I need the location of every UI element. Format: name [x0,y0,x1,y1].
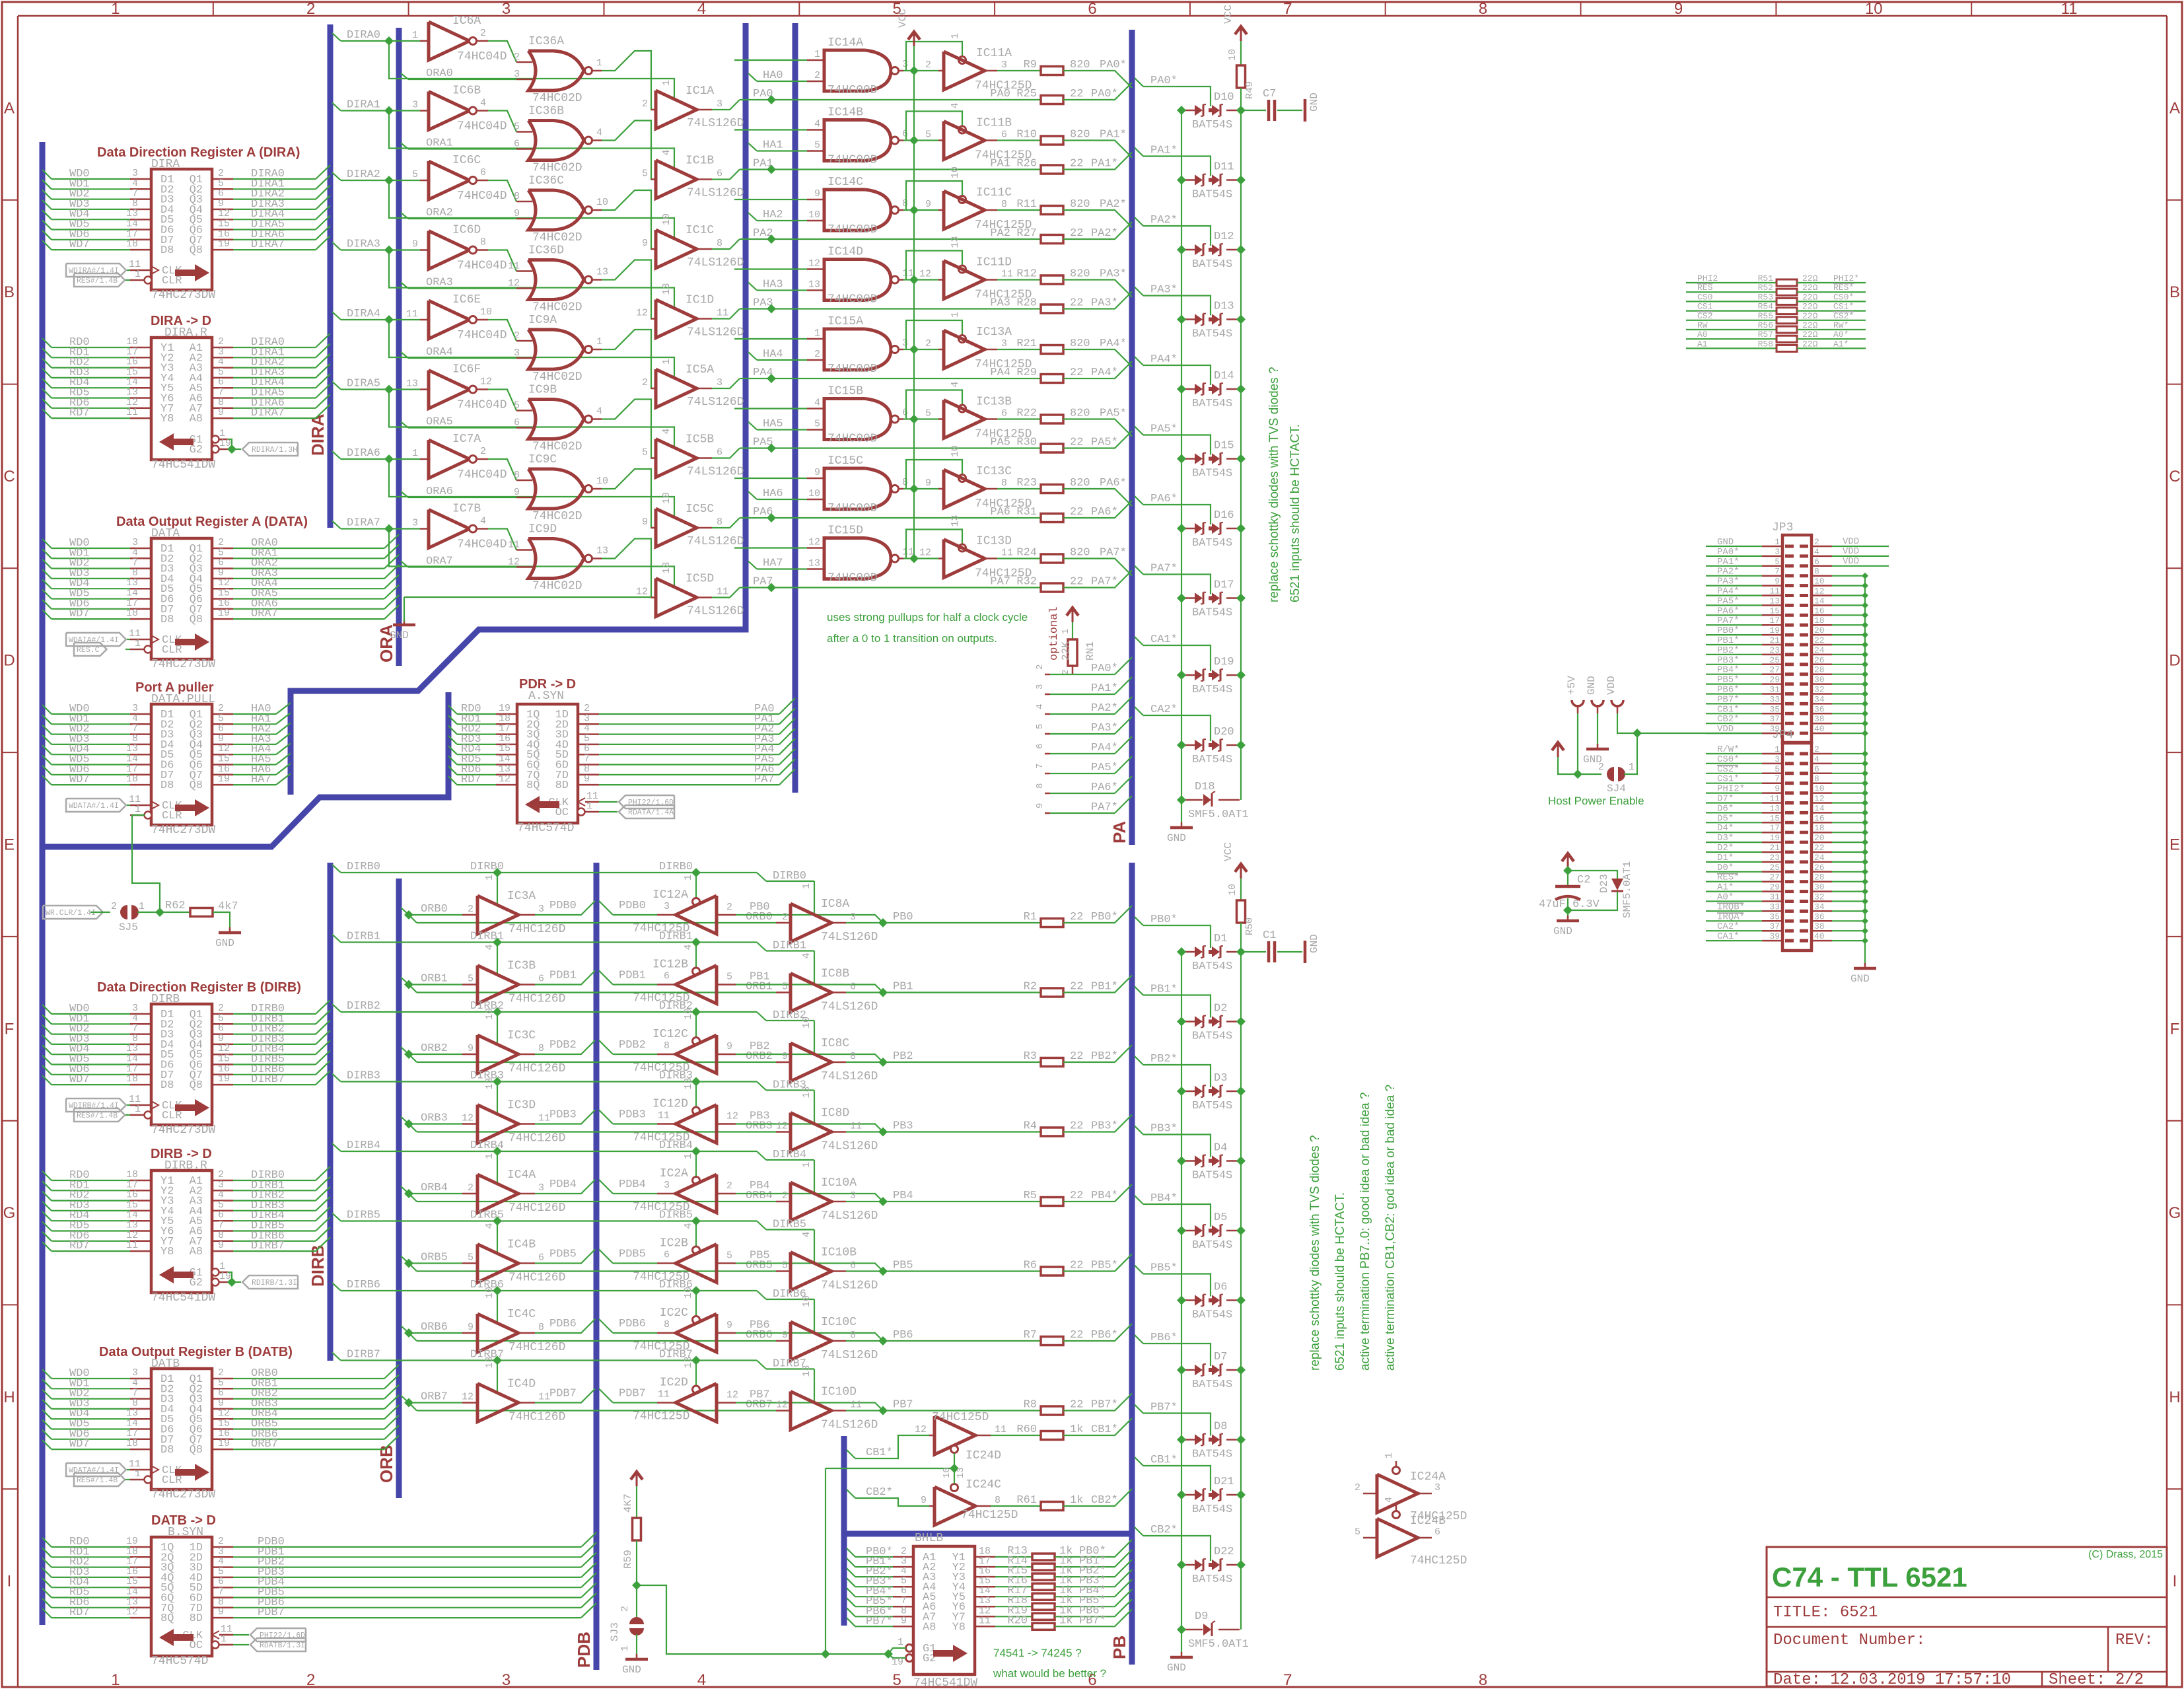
wire IC7B out to NOR [488,529,516,550]
solder jumper SJ5 [120,905,127,919]
svg-text:22: 22 [1070,1120,1083,1133]
flag WDIRA#/1.4I [66,264,126,277]
wire DIRA.R A1 out [212,357,233,359]
svg-text:74HC02D: 74HC02D [532,371,582,384]
svg-text:BAT54S: BAT54S [1192,1503,1232,1516]
wire DATA.PULL Q3 out HA3 [212,744,233,746]
svg-text:6: 6 [480,167,486,178]
svg-text:820: 820 [1070,198,1090,211]
svg-text:22: 22 [1814,635,1825,645]
wire DIRA7 from bus [332,521,341,529]
wire PDB3 to IC12D [599,1110,613,1124]
enable stubs DIRB5 [497,1221,498,1254]
svg-text:IC14D: IC14D [828,246,863,259]
ground JP rail [1864,961,1866,966]
svg-text:PB7: PB7 [893,1399,913,1412]
title block [1767,1547,2167,1686]
svg-text:4: 4 [801,1231,812,1237]
wire DIRA.R A6 out [212,408,233,410]
svg-text:19: 19 [218,1073,230,1085]
svg-text:DIRA6: DIRA6 [347,447,380,460]
diode D15 BAT54S [1181,458,1195,460]
svg-text:R49: R49 [1244,81,1255,99]
svg-text:CLR: CLR [162,810,182,822]
wire WD1 to DATB [42,1379,52,1388]
svg-text:DIRA1: DIRA1 [347,99,380,112]
svg-text:22: 22 [1070,1190,1083,1202]
svg-text:DIRB0: DIRB0 [347,861,380,873]
wire DIRB4 from bus [332,1143,341,1151]
wire DIRB1 from bus [332,935,341,943]
svg-text:9: 9 [726,1320,732,1331]
wire WD0 to DATB [42,1369,52,1379]
svg-text:1: 1 [619,1645,631,1651]
svg-text:IC15B: IC15B [828,385,863,398]
svg-text:4: 4 [480,516,486,527]
svg-text:PB1*: PB1* [1091,981,1118,993]
svg-text:RDIRB/1.3I: RDIRB/1.3I [252,1279,297,1287]
flag PHI22/1.6D [619,795,674,809]
svg-text:8: 8 [850,1330,856,1341]
svg-text:BAT54S: BAT54S [1192,607,1232,620]
svg-text:IC12D: IC12D [652,1098,688,1111]
svg-text:R8: R8 [1024,1399,1037,1412]
capacitor C1 [1241,951,1266,952]
buffer IC12A 74HC125D mirrored [657,914,676,916]
svg-text:ORB: ORB [376,1445,396,1483]
wire DIRB.R A6 out [212,1240,233,1242]
wire IC36B out to IC1B [602,121,656,180]
diode D22 BAT54S [1181,1564,1195,1566]
svg-text:74HC273DW: 74HC273DW [151,658,215,671]
svg-text:12: 12 [919,269,931,280]
svg-text:IC9A: IC9A [528,314,557,327]
buffer IC2A 74HC125D mirrored [657,1193,676,1195]
diode D16 BAT54S [1181,528,1195,530]
wire DATA Q7 out ORA7 [212,618,233,620]
svg-text:BAT54S: BAT54S [1192,537,1232,550]
svg-text:CS0*: CS0* [1833,292,1854,302]
svg-text:74HC273DW: 74HC273DW [151,824,215,837]
wire WD5 to DIRB [42,1056,52,1065]
svg-text:E: E [2169,836,2180,854]
svg-text:IC6E: IC6E [452,293,481,306]
svg-text:IC5C: IC5C [686,503,714,516]
svg-text:13: 13 [406,378,418,390]
JP4 pin 39 [1785,939,1794,943]
svg-text:9: 9 [921,1495,927,1506]
JP3 pin 27 [1785,672,1794,676]
wire RD6 to DIRB.R [42,1232,52,1241]
svg-text:31: 31 [1769,892,1780,902]
wire PDB3 from IC3D [535,1110,595,1124]
wire HA1 from bus [748,143,757,151]
svg-text:37: 37 [1769,714,1780,724]
wire DIRA.R A4 out [212,387,233,389]
svg-text:CS0: CS0 [1697,292,1712,302]
svg-text:replace schottky diodes with T: replace schottky diodes with TVS diodes … [1308,1135,1322,1371]
svg-text:9: 9 [514,208,520,219]
wire WD6 to DATA.PULL [42,766,52,775]
wire DIRB.R A0 out [212,1180,233,1182]
svg-text:74HC00D: 74HC00D [828,363,878,376]
svg-text:SJ4: SJ4 [1607,783,1626,795]
svg-text:8: 8 [538,1043,544,1054]
wire WD1 to DIRB [42,1015,52,1024]
svg-text:Y8: Y8 [952,1621,966,1634]
svg-text:GND: GND [1553,925,1572,937]
svg-text:8: 8 [1814,774,1819,784]
wire PA6* from bus to diode [1135,496,1143,505]
svg-text:1: 1 [1775,744,1780,754]
svg-text:Y8: Y8 [160,413,174,425]
flag RDIRA/1.3H [242,443,298,456]
svg-text:D8: D8 [1214,1421,1227,1433]
svg-text:13: 13 [661,283,672,295]
wire ORB7 from bus [401,1396,409,1403]
wire PA4 from IC5A [712,378,740,388]
svg-text:RDATA/1.4A: RDATA/1.4A [628,809,674,817]
svg-text:PA7*: PA7* [1091,801,1118,814]
svg-text:35: 35 [1769,704,1780,714]
svg-text:74HC02D: 74HC02D [532,510,582,523]
wire WD5 to DATB [42,1420,52,1429]
wire WD5 to DATA.PULL [42,756,52,765]
svg-text:R52: R52 [1758,283,1773,293]
svg-text:D: D [2169,652,2180,670]
svg-text:BAT54S: BAT54S [1192,328,1232,341]
svg-text:PB6*: PB6* [1091,1329,1118,1342]
supply VDD cup [1611,700,1623,706]
svg-text:18: 18 [1814,616,1825,626]
svg-text:IC13D: IC13D [976,535,1012,548]
svg-text:2: 2 [468,904,474,915]
svg-text:BAT54S: BAT54S [1192,1449,1232,1461]
wire WD2 to DIRB [42,1025,52,1034]
svg-text:R4: R4 [1024,1120,1037,1133]
buffer IC8D 74LS126D [791,1113,831,1151]
svg-text:1: 1 [135,804,141,815]
svg-text:G2: G2 [190,444,203,456]
wire DIRB Q4 out [212,1054,233,1056]
wire DATA Q0 out ORA0 [212,548,233,550]
svg-text:7: 7 [1283,0,1292,18]
svg-text:11: 11 [717,308,728,319]
svg-text:74LS126D: 74LS126D [821,1140,878,1153]
svg-text:6: 6 [1001,408,1007,419]
svg-text:11: 11 [658,1110,670,1122]
wire WD2 to DATB [42,1390,52,1399]
wire DIRA Q6 out [212,239,233,241]
wire RD0 to B.SYN [42,1538,52,1547]
svg-text:4: 4 [484,1223,495,1229]
wire HA3 from bus [748,283,757,291]
svg-text:8: 8 [664,1319,670,1330]
svg-text:74HC273DW: 74HC273DW [151,1124,215,1137]
svg-text:PB0*: PB0* [1091,911,1118,923]
svg-text:SJ5: SJ5 [119,921,138,933]
svg-text:1: 1 [950,33,961,39]
svg-text:11: 11 [850,1400,862,1411]
buffer IC4B 74HC126D [477,1244,518,1283]
svg-text:8: 8 [902,198,908,209]
wire IC2D input tap [736,1403,883,1411]
gnd for IC5D input [393,624,415,627]
svg-text:D16: D16 [1214,509,1234,522]
svg-text:20: 20 [1814,626,1825,635]
svg-text:A0: A0 [1697,330,1708,340]
svg-text:WD7: WD7 [69,1438,90,1451]
svg-text:6: 6 [1434,1527,1440,1538]
svg-text:R3: R3 [1024,1050,1037,1063]
enable loop IC11A [906,42,962,71]
svg-text:VCC: VCC [1222,842,1234,861]
svg-text:D7: D7 [1214,1351,1227,1363]
svg-text:6521 inputs should be HCTACT.: 6521 inputs should be HCTACT. [1333,1192,1347,1371]
svg-text:3: 3 [538,1182,544,1194]
wire IC2B input tap [736,1264,883,1272]
resistor R59 4K7 [633,1518,641,1540]
svg-text:D20: D20 [1214,726,1234,738]
svg-text:Data Output Register B (DATB): Data Output Register B (DATB) [99,1345,293,1359]
wire PDB2 to IC12C [599,1040,613,1054]
svg-text:D9: D9 [1195,1610,1208,1623]
svg-text:21: 21 [1769,843,1780,853]
svg-text:HA7: HA7 [763,557,783,570]
wire WD4 to DIRB [42,1045,52,1054]
svg-text:C: C [3,468,15,485]
svg-text:IC3A: IC3A [507,890,536,903]
svg-text:PB2*: PB2* [1150,1053,1178,1065]
wire IC36A out to IC1A [602,51,656,110]
buffer IC3D 74HC126D [477,1105,518,1143]
diode D17 BAT54S [1181,597,1195,599]
wire RD1 to DIRB.R [42,1181,52,1190]
svg-text:PDB3: PDB3 [549,1109,577,1122]
svg-text:PA3*: PA3* [1091,722,1118,735]
wire ORA6 from bus [401,491,408,497]
svg-text:28: 28 [1814,873,1825,882]
svg-text:R62: R62 [165,900,186,912]
svg-text:74HC126D: 74HC126D [509,1132,565,1145]
wire ORA3 from bus [401,283,408,289]
svg-text:8: 8 [717,238,722,249]
svg-text:1: 1 [1775,537,1780,547]
wire DIRB Q7 out [212,1084,233,1086]
svg-text:A8: A8 [190,1246,203,1258]
svg-text:12: 12 [126,1606,138,1618]
wire DIRA0 to 126 enable [389,41,674,99]
svg-text:ORA4: ORA4 [426,346,453,359]
wire ORA0 from bus [401,73,408,79]
svg-text:5: 5 [468,1252,474,1264]
svg-text:I: I [7,1573,12,1591]
resistor R20 1k [975,1626,995,1628]
svg-text:3: 3 [1035,684,1045,690]
VCC arrow R59 [636,1474,638,1486]
svg-text:8D: 8D [190,1612,203,1625]
svg-text:PHI2*: PHI2* [1833,273,1859,283]
svg-text:RD7: RD7 [461,773,481,786]
svg-text:Sheet: 2/2: Sheet: 2/2 [2049,1671,2144,1689]
svg-text:RES#/1.4B: RES#/1.4B [77,1112,118,1120]
svg-text:CS2*: CS2* [1833,311,1854,321]
wire DIRA1 to 126 enable [389,111,674,169]
svg-text:35: 35 [1769,912,1780,921]
svg-text:8: 8 [1479,1671,1487,1689]
wire PA7* from bus to diode [1135,566,1143,575]
svg-text:IC3B: IC3B [507,960,536,973]
wire PDB5 to IC2B [599,1250,613,1264]
svg-text:IC12A: IC12A [652,888,688,902]
svg-text:74HC00D: 74HC00D [828,84,878,97]
buffer IC12C 74HC125D mirrored [657,1054,676,1056]
NAND gate IC14B 74HC00D [824,120,891,161]
svg-text:10: 10 [950,445,961,457]
svg-text:22: 22 [1070,1329,1083,1342]
wire DATA Q1 out ORA1 [212,557,233,559]
svg-text:74HC126D: 74HC126D [509,1062,565,1075]
diode D2 BAT54S [1181,1021,1195,1023]
svg-text:IC15A: IC15A [828,315,863,328]
wire IC15A out to IC13A [903,349,938,350]
wire DIRA5 to 126 enable [389,390,674,448]
buffer IC11B 74HC125D [944,122,985,160]
JP3 pin 31 [1785,692,1794,696]
svg-text:PA2*: PA2* [1091,702,1118,715]
svg-text:D3: D3 [1214,1072,1227,1085]
wire DIRA7 to 126 enable [389,529,674,587]
resistor R21 820 [997,349,1041,350]
ground for C7 [1304,99,1307,122]
svg-text:13: 13 [683,1077,694,1089]
svg-text:5: 5 [1355,1527,1360,1538]
wire RD2 to B.SYN [42,1558,52,1567]
svg-text:9: 9 [514,487,520,498]
svg-text:18: 18 [126,773,138,785]
wire DIRA3 to 126 enable [389,250,674,308]
svg-text:5: 5 [726,1250,732,1262]
resistor R54 22ohm [1686,310,1777,312]
svg-text:WD7: WD7 [69,773,90,786]
svg-text:IC10B: IC10B [821,1246,857,1260]
svg-text:10: 10 [683,1287,694,1299]
wire PA5 to NAND pin1 [734,408,807,409]
buffer IC12B 74HC125D mirrored [657,984,676,986]
svg-text:74HC125D: 74HC125D [975,567,1032,581]
JP4 pin 21 [1785,851,1794,854]
svg-text:1: 1 [596,336,602,347]
svg-text:PB7*: PB7* [866,1615,893,1628]
svg-text:14: 14 [1814,803,1825,813]
wire HA5 from bus [748,422,757,430]
svg-text:22: 22 [1070,88,1083,100]
svg-text:D15: D15 [1214,440,1234,452]
wire RD0 to A.SYN [448,705,457,714]
svg-text:3: 3 [1434,1482,1440,1493]
svg-text:A1*: A1* [1833,339,1849,349]
flag RES#/1.4B [74,1473,125,1486]
svg-text:PDB6: PDB6 [619,1318,646,1330]
wire PA4* from bus to diode [1135,357,1143,365]
svg-text:IC14C: IC14C [828,176,863,189]
svg-text:IC11A: IC11A [976,47,1012,60]
wire IC14A out to IC11A [903,70,938,71]
svg-text:R61: R61 [1016,1494,1037,1507]
svg-text:2: 2 [1035,665,1045,670]
svg-text:6: 6 [1001,129,1007,141]
svg-text:DIRA2: DIRA2 [347,168,380,181]
svg-text:74LS126D: 74LS126D [687,117,744,130]
resistor R61 1k [991,1505,1041,1507]
svg-text:Date: 12.03.2019 17:57:10: Date: 12.03.2019 17:57:10 [1773,1671,2011,1689]
svg-text:PDB0: PDB0 [549,900,577,912]
svg-text:40: 40 [1814,931,1825,941]
svg-text:820: 820 [1070,59,1090,71]
svg-text:74LS126D: 74LS126D [821,1419,878,1432]
inverter IC6A 74HC04D [429,22,470,60]
svg-text:9: 9 [642,238,648,249]
svg-text:R21: R21 [1016,338,1037,350]
wire PB7* from bus to diode [1135,1405,1143,1414]
wire PA0 to NAND pin1 [734,59,807,61]
svg-text:IC4A: IC4A [507,1168,536,1182]
svg-text:BAT54S: BAT54S [1192,258,1232,271]
wire WD0 to DATA.PULL [42,705,52,714]
resistor R22 820 [997,418,1041,419]
svg-text:2: 2 [306,1671,315,1689]
svg-text:R24: R24 [1016,547,1037,559]
svg-text:A.SYN: A.SYN [528,690,564,703]
svg-text:74LS126D: 74LS126D [687,326,744,340]
svg-text:GND: GND [215,937,234,949]
svg-text:CS1: CS1 [1697,302,1713,312]
svg-text:BAT54S: BAT54S [1192,1239,1232,1252]
svg-text:VDD: VDD [1843,556,1859,567]
bus PA mid [793,23,798,793]
svg-text:RES*: RES* [1833,283,1854,293]
svg-text:PA6*: PA6* [1091,781,1118,794]
svg-text:IC2C: IC2C [660,1307,688,1320]
wire PA3* from bus to diode [1135,287,1143,296]
wire DIRB2 from bus [332,1004,341,1012]
svg-text:13: 13 [596,267,608,278]
svg-text:1: 1 [586,801,592,812]
diode D13 BAT54S [1181,318,1195,320]
svg-text:HA1: HA1 [763,139,783,152]
svg-text:PDB6: PDB6 [549,1318,577,1330]
wire IC14B out to IC11B [903,139,938,141]
svg-text:3: 3 [850,1190,856,1202]
svg-text:11: 11 [658,1389,670,1400]
svg-text:DIRB5: DIRB5 [659,1209,693,1222]
svg-text:6: 6 [902,129,908,140]
svg-text:4: 4 [683,944,694,950]
svg-text:IC6C: IC6C [452,154,481,167]
wire PB1* to BHLB [847,1558,855,1567]
wire PDB0 from IC3A [535,901,595,915]
svg-text:5: 5 [726,972,732,983]
wire DATB Q3 out ORB3 [212,1408,233,1410]
svg-text:74LS126D: 74LS126D [821,931,878,944]
buffer IC13C 74HC125D [944,470,985,508]
wire ORB3 from bus [401,1117,409,1124]
svg-text:40: 40 [1814,724,1825,734]
wire DATA Q5 out ORA5 [212,598,233,600]
enable loop IC13B [906,390,962,419]
svg-text:A: A [2169,99,2180,117]
svg-text:22: 22 [1070,297,1083,310]
